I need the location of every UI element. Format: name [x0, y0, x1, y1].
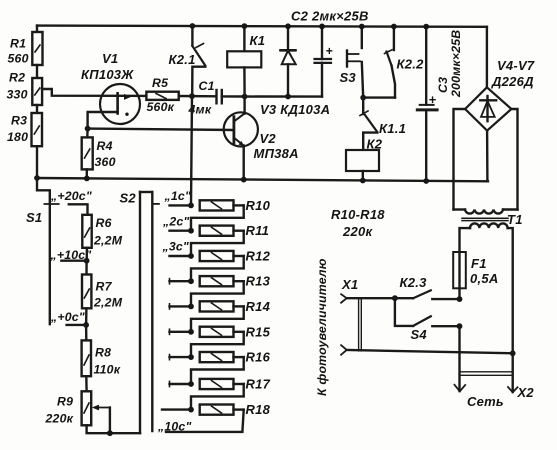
- wire R16 return: [191, 357, 244, 384]
- svg-text:200мк×25В: 200мк×25В: [449, 30, 463, 98]
- node tap R18: [188, 407, 194, 413]
- svg-text:R10-R18: R10-R18: [331, 207, 385, 222]
- node tap R13: [188, 278, 194, 284]
- node K2.2 top: [391, 24, 397, 30]
- capacitor C3: [417, 27, 463, 181]
- resistor R17: [170, 377, 271, 392]
- capacitor C1: [188, 79, 222, 117]
- svg-text:R16: R16: [246, 350, 271, 365]
- node V2 emitter rail: [241, 177, 247, 183]
- svg-text:Сеть: Сеть: [467, 394, 504, 409]
- svg-text:S1: S1: [26, 210, 42, 225]
- wire top rail: [37, 26, 487, 27]
- arrow mains right: [508, 387, 518, 392]
- svg-text:К2: К2: [367, 137, 383, 152]
- resistor R3: [7, 113, 42, 146]
- svg-text:2,2М: 2,2М: [93, 234, 123, 248]
- wire contact +20c to R6: [69, 204, 88, 215]
- wire bottom rail: [37, 178, 488, 181]
- svg-text:V1: V1: [102, 51, 118, 66]
- resistor R14: [170, 299, 271, 314]
- contact K2.2: [363, 27, 424, 98]
- wire R10 return: [191, 205, 244, 230]
- wire R6 to +10c node: [85, 248, 88, 261]
- svg-text:К2.2: К2.2: [397, 57, 425, 72]
- svg-text:360: 360: [95, 155, 116, 169]
- contact K2.3: [395, 275, 460, 299]
- svg-text:F1: F1: [471, 256, 487, 271]
- node C2 top: [319, 24, 325, 30]
- svg-text:X1: X1: [341, 277, 358, 292]
- node tap R12: [188, 253, 194, 259]
- diode V3: [260, 26, 330, 117]
- wire C1 to V2 collector node: [222, 95, 245, 97]
- wire R15 return: [191, 332, 244, 357]
- svg-text:220к: 220к: [45, 412, 74, 426]
- capacitor C2: [291, 9, 369, 97]
- svg-text:„1с": „1с": [164, 189, 191, 203]
- svg-text:R10: R10: [246, 198, 271, 213]
- wire mains right prong: [512, 353, 514, 392]
- wire top rail to bridge: [486, 27, 488, 88]
- wire X1 top to K2.3: [347, 297, 395, 299]
- svg-text:R4: R4: [97, 139, 113, 153]
- wire V1 source node to V2 base: [88, 129, 234, 130]
- svg-text:2,2М: 2,2М: [93, 296, 123, 310]
- fuse F1: [453, 252, 498, 299]
- resistor R8: [82, 325, 121, 377]
- svg-text:X2: X2: [517, 385, 535, 400]
- contact K1.1: [360, 98, 406, 150]
- svg-text:„+0с": „+0с": [50, 310, 85, 324]
- node +0c: [83, 322, 89, 328]
- resistor R18: [162, 402, 271, 417]
- node tap R15: [188, 329, 194, 335]
- wire R11 return: [191, 231, 244, 256]
- relay K2: [346, 137, 383, 181]
- wire ladder feed from C1 node: [191, 96, 192, 205]
- node R4 bottom: [84, 176, 90, 182]
- transistor V2 (MP38A): [224, 97, 299, 180]
- wire R2 wiper tap to V1 gate: [42, 89, 146, 96]
- contact K2.1: [169, 26, 206, 96]
- svg-text:R9: R9: [57, 395, 73, 409]
- wire contact +0c: [67, 324, 87, 326]
- svg-text:330: 330: [7, 88, 28, 102]
- svg-text:К2.3: К2.3: [400, 275, 428, 290]
- svg-text:С2 2мк×25В: С2 2мк×25В: [291, 9, 369, 24]
- node C3 top: [423, 24, 429, 30]
- node V1 source / R4: [85, 126, 91, 132]
- wire R14 return: [191, 306, 244, 331]
- node K1 top: [242, 23, 248, 29]
- wire R7 to +0c node: [85, 308, 88, 325]
- svg-text:R14: R14: [246, 299, 271, 314]
- wire R17 return: [191, 384, 244, 410]
- svg-text:R15: R15: [246, 324, 271, 339]
- svg-text:S2: S2: [120, 191, 137, 206]
- node S4 right: [457, 323, 463, 329]
- node R5/C1/K2.1/ladder: [189, 93, 195, 99]
- svg-text:0,5А: 0,5А: [470, 271, 498, 286]
- svg-text:S4: S4: [411, 327, 428, 342]
- wire R2-R3: [36, 105, 38, 113]
- connector X1: [341, 277, 361, 355]
- resistor R1: [8, 32, 43, 66]
- svg-text:560: 560: [8, 52, 29, 66]
- svg-text:V4-V7: V4-V7: [497, 58, 535, 73]
- switch S1: [26, 178, 92, 324]
- wire bridge right to transformer: [511, 109, 517, 210]
- wire bridge bottom to rail: [486, 131, 489, 182]
- svg-text:R1: R1: [10, 37, 26, 51]
- svg-text:+: +: [326, 44, 333, 58]
- svg-text:К2.1: К2.1: [169, 52, 196, 67]
- svg-text:„10с": „10с": [157, 420, 192, 434]
- transformer T1: [454, 210, 523, 354]
- resistor R4: [82, 129, 116, 179]
- node K2.3 right: [457, 296, 463, 302]
- node S3/K2.2 bottom: [360, 95, 366, 101]
- wire X1 bottom to X2: [347, 350, 513, 353]
- wire contact +10c: [61, 260, 86, 262]
- node R9 wiper: [107, 430, 113, 436]
- svg-text:С3: С3: [436, 77, 450, 93]
- arrow mains left: [455, 385, 466, 392]
- svg-text:R6: R6: [96, 216, 112, 230]
- resistor R7: [82, 261, 123, 310]
- node rail-left: [34, 175, 40, 181]
- resistor R9 potentiometer: [45, 376, 141, 433]
- button S3: [340, 27, 364, 98]
- resistor R13: [170, 274, 271, 289]
- resistor R6: [82, 215, 122, 248]
- svg-text:R3: R3: [11, 114, 27, 128]
- wire V1 source to R4 node: [88, 112, 118, 129]
- svg-text:К1.1: К1.1: [379, 121, 406, 136]
- svg-text:К1: К1: [250, 33, 266, 48]
- node tap R10: [188, 203, 194, 209]
- svg-text:С1: С1: [199, 79, 215, 93]
- node X2 top: [510, 350, 516, 356]
- svg-text:560к: 560к: [147, 100, 175, 114]
- svg-text:R2: R2: [9, 71, 25, 85]
- svg-text:R12: R12: [246, 249, 271, 264]
- node C3 bottom: [423, 178, 429, 184]
- wire mains left prong: [458, 326, 460, 391]
- node +10c: [84, 258, 90, 264]
- svg-text:220к: 220к: [342, 224, 373, 239]
- svg-text:R7: R7: [96, 280, 113, 294]
- switch S2: [120, 191, 159, 434]
- node tap R14: [188, 304, 194, 310]
- svg-text:Т1: Т1: [507, 212, 523, 227]
- svg-text:V3 КД103А: V3 КД103А: [260, 102, 330, 117]
- node K2.3 left: [392, 295, 398, 301]
- resistor R10: [170, 198, 271, 213]
- svg-text:+: +: [429, 92, 437, 107]
- resistor R16: [170, 350, 271, 365]
- svg-text:R5: R5: [152, 76, 168, 90]
- node V3 top: [285, 23, 291, 29]
- wire R3 bottom to rail: [36, 146, 38, 178]
- svg-text:Д226Д: Д226Д: [491, 74, 534, 89]
- resistor R11: [170, 223, 270, 238]
- transistor V1 (FET KP103Zh): [81, 51, 140, 124]
- svg-text:110к: 110к: [94, 363, 121, 377]
- svg-text:S3: S3: [340, 70, 357, 85]
- resistor R15: [170, 324, 271, 339]
- svg-text:R11: R11: [246, 223, 270, 238]
- svg-text:180: 180: [7, 130, 28, 144]
- wire bridge left to transformer: [454, 109, 466, 210]
- node K2.1 top: [190, 23, 196, 29]
- svg-text:„2с": „2с": [162, 215, 189, 229]
- node tap R17: [188, 381, 194, 387]
- node tap R11: [188, 228, 194, 234]
- svg-text:R13: R13: [246, 274, 271, 289]
- wire R1-R2: [36, 65, 38, 78]
- relay K1: [227, 26, 265, 96]
- wire R12 return: [191, 256, 244, 281]
- svg-text:„+20с": „+20с": [50, 189, 92, 203]
- wire R5 to C1: [179, 95, 216, 98]
- switch S4: [395, 298, 460, 342]
- svg-text:R18: R18: [246, 402, 271, 417]
- resistor R2: [7, 71, 43, 106]
- resistor R12: [170, 249, 271, 264]
- node C1/K1/V2: [242, 94, 248, 100]
- node S3 top: [359, 24, 365, 30]
- wire V3/C2 bottom: [245, 95, 322, 97]
- wire left rail top: [36, 26, 38, 32]
- svg-text:К фотоувеличителю: К фотоувеличителю: [315, 258, 329, 396]
- svg-text:R17: R17: [246, 377, 271, 392]
- resistor R5: [146, 76, 178, 114]
- node tap R16: [188, 354, 194, 360]
- svg-text:V2: V2: [260, 131, 277, 146]
- wire R13 return: [191, 281, 244, 306]
- svg-text:„3с": „3с": [162, 240, 189, 254]
- svg-text:МП38А: МП38А: [254, 146, 299, 161]
- wire R18 return to 10c: [166, 410, 244, 432]
- connector X2 plug: [460, 372, 513, 376]
- node K2 bottom rail: [360, 178, 366, 184]
- rectifier bridge V4-V7: [465, 58, 535, 131]
- svg-text:R8: R8: [95, 346, 111, 360]
- node V3 bottom: [285, 94, 291, 100]
- svg-text:КП103Ж: КП103Ж: [81, 67, 134, 82]
